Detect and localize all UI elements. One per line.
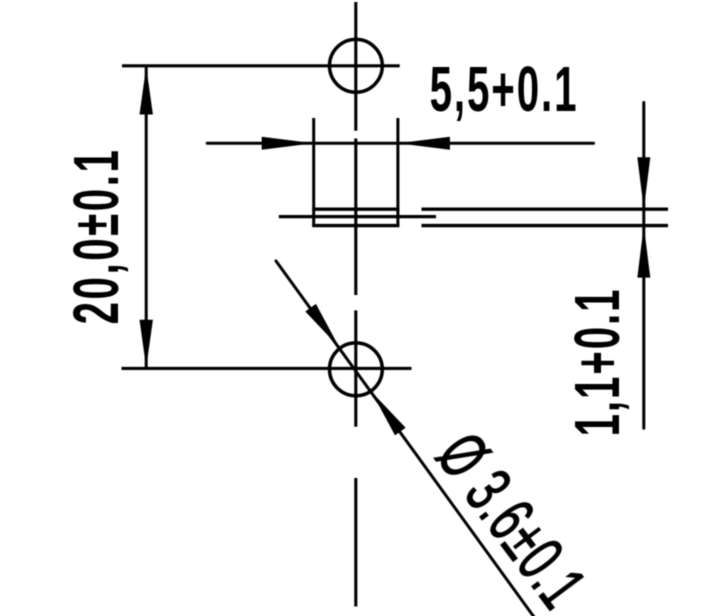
svg-text:1,1+0.1: 1,1+0.1 (563, 288, 634, 437)
svg-text:20,0±0.1: 20,0±0.1 (62, 148, 133, 325)
svg-text:5,5+0.1: 5,5+0.1 (430, 55, 579, 126)
